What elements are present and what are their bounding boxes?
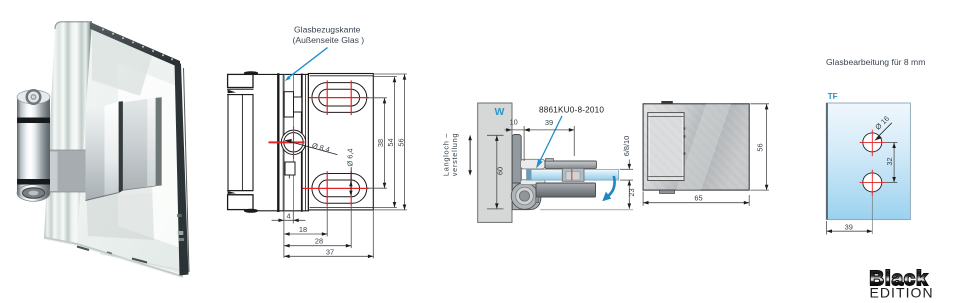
glass cutout panel [827,103,911,220]
svg-text:65: 65 [694,194,702,203]
side view: upper jaw piece [521,159,546,169]
svg-text:32: 32 [885,157,894,165]
photo: barrel screw rings [26,89,42,105]
svg-text:38: 38 [376,139,385,147]
leader diameter 8,4 [286,141,338,155]
dimension 10 [505,126,532,161]
red crosshair upper hole [860,130,886,157]
photo: front plate face [86,104,105,201]
dimension 60 [487,135,504,209]
photo: glass bottom edge [44,238,183,277]
front view: barrel bottom flange [228,191,253,195]
front view: red crosshair middle hole [270,127,304,159]
side view: lower jaw piece [521,180,546,185]
RIGHT_GROUP [870,268,934,300]
svg-text:54: 54 [386,138,395,146]
front view: lower knob [285,162,295,175]
dimension 37 [284,211,373,258]
dimension 39 panel [827,221,873,235]
front view: top knob [284,92,293,117]
front view: bottom slot outer [312,174,367,204]
photo: glass reflection light [118,62,181,248]
back view: sheen [676,104,731,190]
svg-text:W: W [495,106,505,118]
leader diameter 6,4 [350,168,352,191]
back view: right tabs [684,127,686,129]
svg-text:8861KU0-8-2010: 8861KU0-8-2010 [539,105,604,114]
VIEW2_GROUP [442,103,636,222]
dimension 6/8/10 [620,160,633,181]
photo: glass edge column [44,21,92,244]
front view: top slot inner [319,89,360,106]
side view: bottom clamp bar [536,183,596,197]
svg-text:56: 56 [756,143,765,151]
front view: barrel top cap [228,74,253,87]
back view: top nub [661,101,673,104]
photo: glass inner bottom line [100,254,180,271]
svg-text:(Außenseite Glas ): (Außenseite Glas ) [293,35,365,45]
front view: bottom edge line [254,210,309,212]
front view: barrel body [228,95,253,191]
photo: top band dots [102,29,173,61]
front view: red crosshair top slot [310,81,369,115]
photo: right band marks [178,231,184,235]
svg-text:18: 18 [299,225,307,234]
side view: adjustment double arrow [469,137,471,174]
photo: back plate dark strip [156,97,162,186]
front view: barrel top flange [228,89,253,94]
panel hole upper [863,133,882,152]
svg-text:56: 56 [397,138,406,146]
svg-text:Glasbezugskante: Glasbezugskante [294,25,361,35]
dimension 38 [367,98,387,188]
side view: knuckle lobe [512,183,541,210]
side view: wall [478,103,512,222]
svg-text:Ø 6,4: Ø 6,4 [346,148,355,166]
front view: bottom slot inner [319,180,360,197]
photo: barrel gasket top [17,118,50,124]
front view: barrel bottom pin [244,209,258,213]
front view: clamp plate outline [308,74,373,210]
photo: glass main face [77,27,185,275]
svg-text:TF: TF [828,92,838,101]
photo: hinge arm [48,150,86,192]
front view: knob column lines [283,74,285,210]
side view: bottom step [536,197,539,203]
svg-text:37: 37 [326,247,334,256]
back view: body [643,104,749,190]
svg-text:Glasbearbeitung für 8 mm: Glasbearbeitung für 8 mm [826,57,925,67]
dimension 4 [272,212,305,258]
svg-text:EDITION: EDITION [870,284,934,300]
svg-text:4: 4 [287,212,291,221]
photo: front plate bevel [105,102,119,197]
photo: front plate top sliver [86,102,119,110]
dimension 32 [886,142,898,182]
photo: glass reflection grey [92,30,152,96]
front view: side plate lines [301,74,303,210]
front view: red crosshair bottom slot [303,172,368,205]
side view: glass pane section [527,170,619,181]
side view: screw axis red line [571,169,573,181]
photo: front plate shadow gap [119,101,123,193]
photo: back plate bevel [147,98,155,187]
front view: top edge line [253,73,308,75]
svg-text:6/8/10: 6/8/10 [622,136,631,157]
dimension 23 [628,180,630,209]
back view: bottom nub [660,190,675,193]
svg-text:Ø 8,4: Ø 8,4 [311,141,331,154]
dimension 65 [643,192,749,206]
front view: barrel bottom cap [228,195,253,210]
back view: inner plate [648,113,684,181]
back view: inner plate header [648,116,683,118]
side view: clamp center block [562,168,584,181]
side view: glass left end [527,170,532,181]
svg-text:60: 60 [495,167,504,175]
photo: glass lower tint [86,184,154,240]
dimension 56 back [751,104,770,190]
photo: barrel gasket bottom [17,179,50,185]
red crosshair lower hole [860,170,886,197]
dimension 28 [284,206,351,248]
svg-text:23: 23 [627,188,636,196]
photo: glass top edge band [90,22,180,68]
side view: knuckle circle [511,183,538,210]
back view: hatch [644,104,749,189]
back view: inner plate hatch [648,113,683,180]
leader diameter 16 [877,123,892,139]
side view: upper clamp bar [545,161,596,168]
svg-text:39: 39 [545,118,553,127]
svg-text:39: 39 [845,222,853,231]
photo: glass bottom dashes [77,247,89,251]
panel hole lower [863,173,882,192]
svg-text:verstellung: verstellung [450,133,459,176]
svg-text:10: 10 [509,118,517,127]
panel centre line [871,196,873,234]
front view: glass edge lines [277,74,279,210]
front view: middle hole circle [281,130,305,154]
dimension 54 [374,77,397,208]
dimension 18 [284,206,327,236]
leader blue 8861 [539,116,563,164]
side view: wall plate [512,135,521,190]
leader blue arrow [289,48,328,78]
photo: barrel top cap [17,97,50,111]
back view: inner plate footer [648,175,683,177]
front view: top slot outer [312,83,367,113]
photo: back plate face [123,99,147,190]
VIEW4_GROUP [826,57,925,235]
side view: blue swing arrow [608,176,615,197]
photo: barrel bottom cap [17,185,50,194]
photo: barrel body [17,111,50,118]
photo: plate bottom shadows [86,193,119,201]
PHOTO_GROUP [228,25,407,259]
VIEW3_GROUP [643,101,769,206]
photo: glass tint over back plate [120,92,163,195]
front view: barrel top pin [244,71,258,75]
svg-text:28: 28 [315,237,323,246]
side view: bottom extension line [540,209,633,211]
dimension 56 [375,74,407,210]
photo: glass right edge band [175,62,189,276]
dimension 39 side [524,126,574,156]
